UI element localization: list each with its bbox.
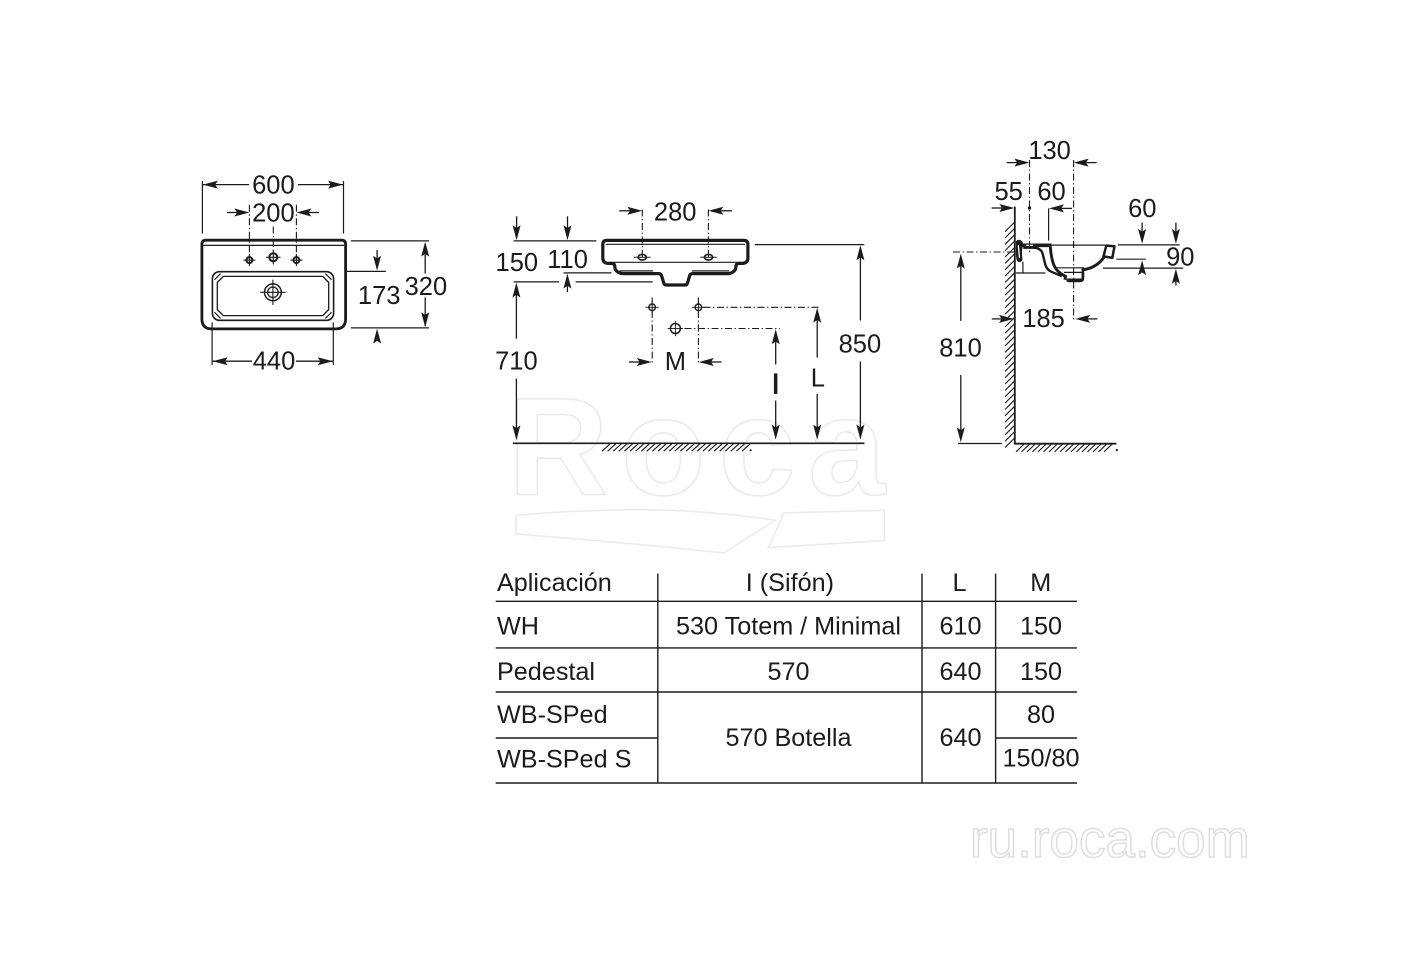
front view 110 level line — [564, 272, 612, 274]
table cell 150 row2 — [1020, 658, 1062, 686]
dim I — [772, 329, 780, 439]
svg-text:55: 55 — [995, 178, 1023, 206]
dim 600 — [203, 172, 343, 200]
top view basin outer body — [202, 240, 346, 329]
table cell 530 Totem Minimal — [676, 612, 901, 640]
front view ground line — [513, 442, 865, 444]
dim 200 — [227, 200, 319, 228]
side view mount vertical line — [1022, 262, 1024, 273]
side view mounting bracket — [1016, 240, 1023, 262]
svg-text:Pedestal: Pedestal — [497, 658, 595, 686]
svg-text:640: 640 — [939, 724, 981, 752]
table cell WB-SPed S — [497, 746, 631, 774]
svg-text:570 Botella: 570 Botella — [725, 724, 852, 752]
table header I Sifon — [746, 569, 834, 597]
side view front lip — [1104, 246, 1115, 258]
dim 173 extension top — [346, 270, 386, 272]
svg-text:M: M — [1030, 569, 1051, 597]
table header Aplicacion — [497, 569, 612, 597]
front view centerline hole left — [641, 210, 643, 263]
table column line 1 — [657, 574, 659, 783]
svg-text:M: M — [665, 348, 686, 376]
svg-text:280: 280 — [654, 199, 697, 227]
svg-text:610: 610 — [939, 612, 981, 640]
table column line 2 — [921, 574, 923, 783]
dim L — [811, 308, 825, 440]
table cell 570 — [767, 658, 809, 686]
side view trap line 2 — [1064, 271, 1082, 273]
dim 173 extension bottom — [351, 327, 429, 329]
svg-text:ru.roca.com: ru.roca.com — [970, 810, 1250, 869]
front view centerline bolt left — [651, 298, 653, 364]
dim 60 right — [1128, 195, 1156, 275]
top view centerline left hole — [248, 205, 250, 256]
side view bowl back outer — [1050, 247, 1065, 280]
dim 110 arrow up — [563, 274, 571, 293]
front view sink outline — [603, 240, 748, 285]
front view bolt hole middle — [668, 321, 683, 336]
side view centerline 130 left — [1028, 160, 1031, 253]
dim 90 — [1166, 223, 1194, 286]
front view 150 level line — [514, 281, 653, 283]
dim 60 left — [1037, 178, 1072, 241]
table cell Pedestal — [497, 658, 595, 686]
svg-text:60: 60 — [1037, 178, 1065, 206]
table header underline — [496, 600, 1077, 602]
svg-text:WH: WH — [497, 612, 539, 640]
svg-text:150: 150 — [496, 249, 539, 277]
svg-text:L: L — [811, 364, 825, 392]
dim 320 extension top — [351, 240, 429, 242]
table cell WB-SPed — [497, 701, 608, 729]
svg-text:130: 130 — [1028, 137, 1071, 165]
svg-text:WB-SPed S: WB-SPed S — [497, 746, 631, 774]
table row line 2 — [496, 647, 1077, 649]
svg-text:I (Sifón): I (Sifón) — [746, 569, 834, 597]
svg-text:150: 150 — [1020, 612, 1062, 640]
svg-text:90: 90 — [1166, 243, 1194, 271]
table row line 4 left — [496, 737, 658, 739]
side view 810 floor extension — [958, 443, 1002, 445]
front view bolt hole left — [645, 301, 658, 314]
dim 110 arrow down — [564, 216, 572, 240]
dim 710 — [495, 283, 538, 441]
table header M — [1030, 569, 1051, 597]
side view trap line 1 — [1056, 267, 1083, 269]
top view back ledge line — [203, 244, 344, 246]
dim 440 extension left — [211, 322, 213, 365]
dim 600 extension right — [343, 181, 345, 234]
svg-text:L: L — [952, 569, 966, 597]
dim 130 — [1007, 137, 1097, 166]
dim 173 — [358, 250, 401, 344]
side view bowl front curve — [1083, 256, 1105, 270]
top view basin corner bevel BR — [325, 312, 331, 318]
side view floor hatch — [1016, 444, 1118, 452]
svg-text:200: 200 — [252, 200, 295, 228]
dim 440 — [213, 348, 333, 376]
table bottom line — [496, 782, 1077, 784]
top view basin rim outer — [212, 272, 333, 321]
watermark swoosh right — [769, 510, 885, 547]
front view centerline hole right — [707, 210, 709, 263]
dim 280 — [619, 199, 732, 227]
dim 150 label — [496, 249, 539, 277]
table column line 3 — [995, 574, 997, 783]
table cell WH — [497, 612, 539, 640]
side view centerline drain — [1073, 160, 1075, 322]
dim 810 — [939, 254, 982, 443]
front view bowl line left — [620, 270, 654, 272]
top view basin corner bevel TR — [325, 274, 331, 280]
side view hole level centerline — [953, 251, 1015, 253]
table row line 4 right — [996, 737, 1077, 739]
svg-text:60: 60 — [1128, 195, 1156, 223]
svg-text:710: 710 — [495, 347, 538, 375]
svg-text:440: 440 — [253, 348, 296, 376]
front view rim inner line — [606, 243, 745, 245]
table header L — [952, 569, 966, 597]
top view basin rim inner — [217, 276, 328, 315]
front view bolt hole right — [692, 301, 705, 314]
front view bowl line right — [692, 270, 729, 272]
dim 320 — [405, 242, 448, 328]
side view hole level line — [1116, 258, 1146, 260]
top view basin corner bevel TL — [215, 274, 221, 280]
dim M — [629, 348, 722, 376]
side view top level line — [1118, 244, 1180, 246]
watermark ru.roca.com — [970, 810, 1250, 869]
svg-text:640: 640 — [939, 658, 981, 686]
svg-text:850: 850 — [839, 331, 882, 359]
svg-text:80: 80 — [1027, 701, 1055, 729]
svg-text:150/80: 150/80 — [1002, 745, 1079, 773]
side view trap outline — [1067, 267, 1083, 281]
front view centerline I level — [685, 328, 780, 330]
table cell 640 merged — [939, 724, 981, 752]
dim 55 — [992, 178, 1023, 212]
side view bowl level line — [1103, 267, 1183, 269]
table cell 640 row2 — [939, 658, 981, 686]
side view wall line — [1014, 207, 1016, 444]
svg-text:173: 173 — [358, 282, 401, 310]
table cell 150 row1 — [1020, 612, 1062, 640]
dim 440 extension right — [332, 322, 334, 365]
front view fixing hole right — [700, 254, 717, 260]
table cell 610 — [939, 612, 981, 640]
front view centerline L level — [704, 306, 821, 308]
table cell 80 — [1027, 701, 1055, 729]
svg-text:110: 110 — [547, 246, 588, 274]
top view centerline right hole — [295, 205, 297, 256]
svg-text:810: 810 — [939, 334, 982, 362]
front view centerline bolt right — [697, 298, 699, 364]
side view top cut band — [1022, 244, 1052, 248]
svg-text:Roca: Roca — [508, 370, 898, 525]
top view basin corner bevel BL — [215, 312, 221, 318]
side view mount bottom line — [1016, 272, 1046, 274]
svg-text:570: 570 — [767, 658, 809, 686]
table row line 3 — [496, 691, 1077, 693]
svg-text:530 Totem / Minimal: 530 Totem / Minimal — [676, 612, 901, 640]
svg-text:185: 185 — [1022, 305, 1065, 333]
side view wall hatch — [1005, 222, 1015, 448]
dim 110 label — [547, 246, 588, 274]
dim 185 — [992, 305, 1098, 333]
top view faucet hole left — [243, 254, 255, 266]
watermark swoosh left — [516, 510, 776, 553]
table cell 150/80 — [1002, 745, 1079, 773]
top view centerline middle hole — [272, 227, 274, 253]
top view faucet hole right — [290, 254, 302, 266]
dim 600 extension left — [201, 181, 203, 234]
side view rim top line — [1052, 244, 1109, 246]
svg-text:600: 600 — [252, 172, 295, 200]
top view drain symbol — [260, 280, 285, 305]
side view bowl back inner — [1023, 248, 1062, 277]
top view faucet hole middle — [266, 250, 280, 264]
front view ground hatch — [602, 444, 752, 452]
front view top level line — [514, 240, 597, 242]
side view trap line 3 — [1066, 278, 1082, 280]
table cell 570 Botella — [725, 724, 852, 752]
svg-text:WB-SPed: WB-SPed — [497, 701, 608, 729]
svg-text:320: 320 — [405, 273, 448, 301]
front view 850 top line — [755, 244, 865, 246]
dim 850 — [839, 245, 882, 439]
front view rim bottom line — [610, 261, 741, 263]
svg-text:Aplicación: Aplicación — [497, 569, 612, 597]
dim 150 arrow down — [513, 216, 521, 240]
watermark Roca text — [508, 370, 898, 525]
front view fixing hole left — [634, 254, 651, 260]
svg-text:150: 150 — [1020, 658, 1062, 686]
side view floor line — [1014, 443, 1116, 445]
